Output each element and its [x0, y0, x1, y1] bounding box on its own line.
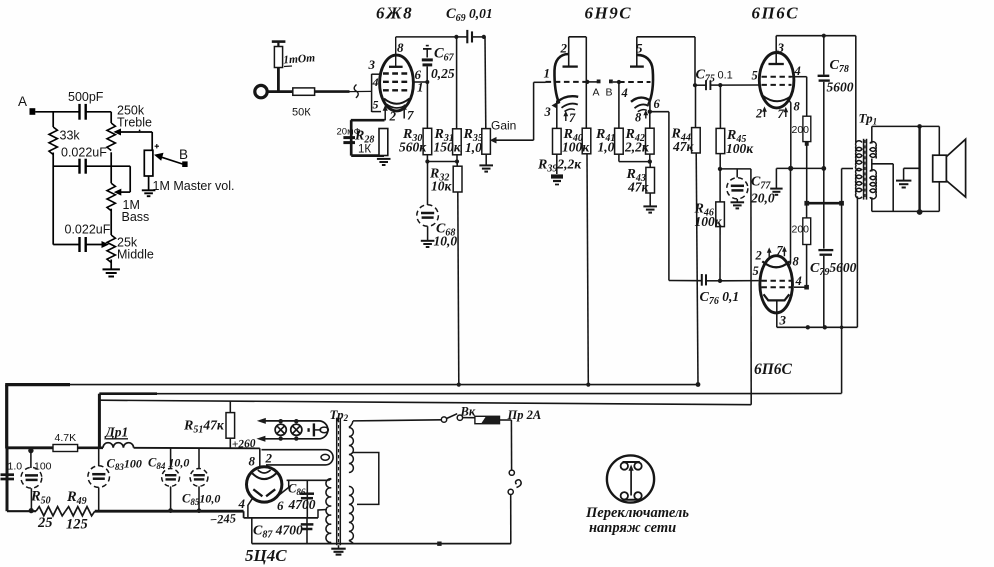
selector pins [621, 462, 628, 469]
svg-text:50К: 50К [292, 107, 311, 119]
svg-text:Bass: Bass [122, 210, 150, 224]
resistor 4.7K [53, 445, 78, 452]
resistor R32 [456, 162, 458, 167]
selector bottom bar [623, 499, 640, 501]
Tr1 secondary winding A [870, 142, 876, 159]
wire 33k down to C2 row [52, 153, 54, 245]
wire secondary top to speaker [871, 126, 873, 143]
filament capsule [262, 450, 334, 465]
svg-text:C75: C75 [696, 68, 715, 85]
svg-text:33k: 33k [60, 129, 81, 143]
pin 3 lead lower [776, 300, 778, 327]
Tr2 primary winding B [349, 486, 354, 540]
svg-text:2: 2 [755, 107, 762, 121]
capacitor C67 top terminal [426, 45, 429, 47]
svg-text:100к: 100к [562, 140, 590, 155]
node dot R31 [455, 159, 459, 163]
wire cap1 to bass node [86, 165, 130, 167]
svg-text:4700: 4700 [288, 497, 316, 512]
svg-text:C86: C86 [288, 482, 306, 498]
resistor R28 [379, 129, 388, 156]
node dot grid/C67 [425, 80, 429, 84]
pin 2 stub [384, 107, 386, 121]
svg-text:0,25: 0,25 [431, 66, 455, 81]
pin 4 screen lead [792, 76, 807, 78]
HV top lead [329, 479, 331, 481]
wire R41-R42 row [619, 161, 650, 163]
node dot R45/R46 [718, 167, 722, 171]
Tr1 core [863, 139, 865, 200]
svg-text:1: 1 [544, 66, 551, 81]
svg-text:8: 8 [794, 100, 801, 114]
capsule loop oval [321, 454, 329, 460]
svg-text:1К: 1К [358, 144, 371, 156]
node dot lower grid [718, 279, 722, 283]
wire grid upper to tube [720, 84, 759, 86]
resistor R50 zigzag [36, 507, 65, 516]
cathode arc upper [763, 96, 791, 102]
wire to C76 [669, 280, 701, 282]
wire pin6 to node [413, 81, 428, 83]
tube envelope lower [760, 256, 793, 313]
node dot R30 [425, 159, 429, 163]
node dot speaker top [917, 124, 922, 129]
svg-text:1.0: 1.0 [8, 461, 23, 473]
wiper wire Gain to 6Н9С grid [493, 139, 534, 141]
triode 1 envelope [554, 54, 568, 104]
HV mid tap stub [318, 510, 327, 518]
svg-text:6Ж8: 6Ж8 [376, 4, 413, 23]
node dot grid1 [585, 80, 589, 84]
arrow left bottom [256, 436, 265, 442]
rail 4.7K to choke [78, 446, 103, 449]
resistor R45 [719, 85, 721, 128]
filament arcs [252, 473, 276, 479]
svg-text:4.7K: 4.7K [55, 432, 77, 444]
wire A to C-treble [35, 111, 79, 113]
resistor R39 [556, 101, 558, 129]
triode1 anode bar [563, 65, 578, 67]
lamp 2 [291, 424, 302, 435]
svg-text:5: 5 [373, 98, 379, 112]
svg-text:A: A [18, 94, 27, 109]
svg-text:Переключатель: Переключатель [585, 505, 689, 521]
wire 200 to screen bar [806, 142, 808, 204]
plate diagonals [253, 489, 262, 496]
resistor R40 [585, 37, 587, 128]
speaker jumper [918, 126, 920, 213]
terminal A [597, 80, 601, 84]
triode2 cathode arc [631, 98, 650, 102]
capacitor C85 electrolytic [198, 448, 200, 469]
plug terminal 2 [508, 489, 513, 494]
ground branch output cathodes [775, 168, 777, 188]
choke Др1 [103, 443, 134, 448]
node dot C78 top [822, 34, 826, 38]
bus screens drop left thick [98, 394, 101, 449]
svg-text:100к: 100к [726, 141, 754, 156]
svg-text:200: 200 [792, 124, 810, 136]
cathode2 lead [649, 102, 651, 112]
bottom rail thick [95, 510, 244, 513]
bus B+ main [70, 384, 698, 386]
capacitor C77 electrolytic [736, 169, 738, 178]
pin 2 lead over [568, 37, 570, 67]
svg-text:6: 6 [277, 498, 284, 513]
svg-text:2: 2 [265, 451, 273, 466]
fuse Пр 2А [475, 416, 500, 423]
Tr2 core [336, 418, 338, 546]
ground R28 [377, 159, 391, 165]
wire jack to 50K [267, 90, 292, 93]
svg-text:150к: 150к [434, 140, 462, 155]
wire to C 0.022 #2 [53, 244, 79, 246]
svg-text:560к: 560к [399, 140, 427, 155]
svg-text:10,0: 10,0 [434, 234, 458, 249]
node square bar left [804, 201, 809, 206]
wire cap to treble pot [86, 111, 111, 113]
ground master vol [142, 190, 156, 196]
svg-text:7: 7 [569, 111, 576, 125]
pin 8 lead [395, 37, 397, 67]
resistor R51 [229, 401, 231, 413]
svg-text:A: A [593, 87, 600, 99]
pin 4 lead [248, 498, 253, 518]
capacitor C78 [823, 36, 825, 75]
svg-text:C69 0,01: C69 0,01 [446, 6, 493, 24]
cathode arcs [384, 99, 410, 104]
plus mark [155, 144, 159, 148]
resistor 1mOm vertical [277, 68, 280, 92]
row pin6 to HV top [287, 479, 329, 481]
wire fuse to plug [500, 419, 512, 421]
svg-text:47к: 47к [672, 139, 695, 154]
svg-text:Gain: Gain [491, 119, 516, 133]
svg-text:200: 200 [792, 224, 810, 236]
svg-text:напряж сети: напряж сети [589, 520, 676, 536]
Tr2 primary winding A [349, 428, 354, 473]
cathode blob t1 [552, 101, 560, 108]
wire switch to fuse [463, 417, 475, 419]
grid dashes [383, 74, 411, 91]
capacitor C67 [422, 60, 433, 65]
svg-text:1mOm: 1mOm [283, 52, 316, 66]
svg-text:+260: +260 [232, 438, 257, 451]
svg-text:C83100: C83100 [107, 457, 142, 473]
node square bar right [839, 201, 844, 206]
node dot bus R40 [586, 383, 590, 387]
wire to switch [353, 420, 441, 421]
selector circle [607, 455, 654, 502]
Tr1 primary winding [856, 141, 862, 171]
svg-text:6П6С: 6П6С [752, 4, 800, 23]
capacitor C84 electrolytic [170, 448, 172, 469]
resistor R42 [649, 112, 651, 129]
capacitor 100 electrolytic [28, 448, 33, 453]
svg-text:Тр1: Тр1 [859, 111, 878, 127]
wire to lower screen [794, 286, 807, 288]
ground C77 [731, 202, 745, 208]
wire rail up to Tr1 bottom [856, 197, 858, 328]
svg-text:B: B [179, 147, 188, 162]
screen tie bar thick [807, 202, 842, 205]
wire junction row [427, 161, 457, 163]
node dot grid2 [617, 80, 621, 84]
tube 6Ж8 envelope [380, 55, 414, 111]
svg-text:100: 100 [34, 461, 52, 473]
svg-text:4: 4 [795, 274, 802, 288]
resistor R46 [719, 169, 721, 202]
svg-text:3: 3 [779, 313, 787, 328]
speaker horn [946, 139, 965, 197]
rail +260 left thick [7, 446, 53, 449]
switch Вк [441, 417, 446, 422]
lamp 1 [275, 424, 286, 435]
wiper middle wire [86, 244, 107, 246]
heater capsule rails [260, 421, 328, 439]
primary top lead [349, 421, 353, 428]
svg-text:0.1: 0.1 [718, 70, 733, 82]
svg-text:7: 7 [777, 244, 784, 258]
node dot C75 left [693, 83, 697, 87]
svg-text:500pF: 500pF [68, 90, 104, 104]
grid dashes upper tube [762, 77, 792, 85]
wire C76 to lower grid [706, 280, 720, 282]
svg-text:Middle: Middle [117, 248, 154, 262]
terminal B [182, 161, 187, 167]
svg-text:47к: 47к [627, 180, 650, 195]
wire row to corner [720, 168, 751, 170]
node dot grid upper [718, 83, 722, 87]
node dot rail 807 [806, 325, 810, 329]
capacitor 20мФ [343, 138, 355, 143]
node blob bus R44 [696, 382, 701, 387]
heater arrow 7 lower [783, 248, 785, 256]
wire top rail down to primary [855, 36, 857, 143]
wire riser to ground bus [750, 169, 752, 405]
resistor R44 [695, 85, 697, 127]
wire primary centre tap [842, 168, 853, 170]
svg-text:4: 4 [794, 64, 801, 78]
svg-text:−245: −245 [209, 511, 236, 527]
node dot C78 bottom [821, 166, 826, 171]
resistor 200 upper [803, 116, 811, 141]
svg-text:100к: 100к [695, 214, 723, 229]
svg-text:C87 4700: C87 4700 [253, 523, 303, 541]
capacitor C79 [823, 168, 825, 248]
heater arrow 7 [785, 109, 787, 118]
svg-text:5: 5 [753, 264, 759, 278]
heater arrow 2 [764, 108, 766, 117]
node square 200 bottom [805, 142, 809, 146]
svg-text:Тр2: Тр2 [330, 407, 349, 423]
bus ground sloped [101, 400, 752, 405]
capacitor 0.022uF #2 [80, 237, 86, 252]
node square lower screen [804, 285, 809, 290]
node dot rail-R31 [454, 35, 458, 39]
svg-text:1,0: 1,0 [598, 140, 615, 155]
capacitor C68 electrolytic [427, 162, 429, 206]
svg-text:R49: R49 [66, 489, 87, 507]
speaker voice coil box [933, 155, 947, 182]
node dot C69-Gain [482, 35, 486, 39]
triode1 grid dashes [546, 81, 588, 83]
node blob jumper bottom [917, 209, 923, 215]
bus screens main [157, 393, 842, 395]
svg-text:Вк: Вк [460, 405, 476, 419]
node square bottom row [437, 542, 441, 546]
svg-text:7: 7 [407, 108, 414, 123]
potentiometer 1M Master vol [144, 150, 153, 176]
svg-text:3: 3 [544, 105, 551, 119]
Tr1 secondary winding B [870, 170, 876, 199]
capacitor 1.0 across drop [6, 448, 9, 511]
svg-text:0.022uF: 0.022uF [65, 223, 111, 237]
cathode arc lower [762, 261, 790, 267]
wire plate rail [396, 36, 457, 38]
drop to bottom row [251, 518, 253, 544]
ground R43 [643, 206, 657, 212]
capacitor 0.022uF #1 [80, 159, 86, 174]
wire grid1 to A [587, 81, 597, 83]
svg-text:0.022uF: 0.022uF [61, 146, 107, 160]
wire top rail to transformer [776, 35, 856, 37]
resistor R43 [649, 162, 651, 168]
svg-text:C795600: C795600 [810, 260, 857, 278]
svg-text:2: 2 [755, 249, 762, 263]
svg-text:7: 7 [778, 107, 785, 121]
pin 3 lead [775, 36, 777, 64]
pin 2 stub [266, 465, 268, 468]
triode2 anode bar [630, 65, 644, 67]
tube 5Ц4С envelope [247, 467, 282, 502]
pin 7 stub [403, 106, 405, 119]
capacitor C76 [702, 274, 706, 286]
ground middle [103, 269, 120, 276]
triode 2 envelope [637, 55, 653, 105]
svg-text:2,2к: 2,2к [624, 140, 650, 155]
heater arrow 2 lower [768, 249, 770, 257]
svg-text:R392,2к: R392,2к [537, 157, 582, 175]
svg-text:C84 10,0: C84 10,0 [148, 456, 189, 472]
bottom row to plug [252, 543, 511, 545]
ground R39 thick [551, 177, 563, 185]
svg-text:8: 8 [249, 454, 256, 469]
svg-text:20,0: 20,0 [750, 191, 775, 206]
wire 50K to grid [315, 90, 350, 93]
heater connector bars [307, 428, 309, 432]
svg-text:B: B [606, 87, 613, 99]
wire secondary mid tap [871, 159, 873, 172]
pin 8 lead [259, 448, 261, 467]
svg-text:3: 3 [777, 40, 785, 55]
HV bottom lead [327, 542, 331, 543]
node junction at 33k [52, 111, 54, 127]
plug terminal 1 [509, 470, 514, 475]
terminal A [30, 108, 36, 115]
row -245 [243, 511, 245, 518]
svg-text:4: 4 [372, 75, 379, 89]
ground core [338, 545, 340, 548]
resistor R31 [456, 37, 458, 129]
bus screens thick left [99, 392, 157, 395]
Tr2 HV winding [326, 479, 331, 543]
ground R35 [479, 165, 493, 171]
node dot rail C79 [823, 325, 827, 329]
potentiometer 1M Bass [110, 166, 112, 183]
ground C68 [421, 241, 435, 247]
primary tap jog [352, 453, 379, 505]
svg-text:8: 8 [397, 40, 404, 55]
pin 8 cathode lead lower [789, 258, 791, 267]
capacitor C86 [306, 480, 308, 518]
svg-text:1,0: 1,0 [465, 140, 482, 155]
capacitor C87 [306, 518, 308, 544]
heater arrow 8 triode2 [645, 112, 647, 119]
grid dashes lower tube [762, 281, 792, 288]
capacitor C69 [456, 36, 467, 38]
anode bar lower [764, 294, 790, 300]
potentiometer R35 Gain [484, 37, 487, 129]
pin 5 lead over [636, 37, 638, 67]
pin 6 lead [278, 480, 288, 495]
pin 8 cathode lead [789, 100, 791, 169]
R28 bias box wires [351, 119, 385, 122]
input jack [255, 85, 267, 97]
node dot rail crossing [840, 326, 844, 330]
capacitor C83 electrolytic [98, 448, 100, 466]
node dot bus R32 [457, 383, 461, 387]
svg-text:6: 6 [654, 97, 661, 111]
wire cathode2 to C76 riser [650, 111, 669, 113]
svg-text:Treble: Treble [117, 116, 152, 130]
svg-text:25: 25 [37, 515, 53, 531]
wire centre tap down [841, 169, 843, 394]
svg-text:2: 2 [389, 109, 397, 124]
wire plug to bottom row [510, 495, 512, 544]
svg-text:R5147к: R5147к [183, 418, 225, 436]
potentiometer 25k Middle [107, 235, 115, 262]
terminal B [609, 80, 613, 84]
wire cathode row to lower tube [790, 168, 792, 258]
svg-text:5Ц4С: 5Ц4С [245, 546, 287, 565]
bottom rail left [7, 510, 36, 512]
svg-text:2: 2 [560, 41, 568, 56]
resistor R49 zigzag [65, 507, 94, 516]
ground branch speaker [904, 167, 920, 169]
svg-text:1M Master vol.: 1M Master vol. [153, 179, 235, 193]
heater loop oval [320, 427, 328, 433]
node dot R43 top [648, 159, 652, 163]
capacitor C75 [695, 84, 705, 86]
svg-text:Др1: Др1 [104, 425, 129, 440]
wire to C 0.022 #1 [53, 165, 79, 167]
heater arrow 7 triode1 [565, 113, 567, 122]
svg-text:5: 5 [752, 69, 758, 83]
svg-text:C8510,0: C8510,0 [182, 492, 220, 508]
wiper B wire [157, 156, 183, 164]
svg-text:8: 8 [793, 255, 800, 269]
svg-text:C76 0,1: C76 0,1 [700, 289, 740, 307]
rail choke to +260 [134, 447, 260, 450]
svg-text:C67: C67 [434, 46, 455, 64]
anode rail lower [777, 326, 858, 328]
pin bracket 4/5 [371, 74, 373, 112]
wire secondary bottom [871, 197, 873, 211]
node dot cathode2 [648, 110, 652, 114]
svg-text:C77: C77 [751, 175, 771, 192]
arrow left top [257, 418, 266, 424]
